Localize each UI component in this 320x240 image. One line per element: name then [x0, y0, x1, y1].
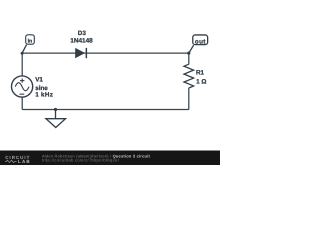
svg-text:D3: D3	[78, 30, 87, 37]
node out (junction dot, pointer and flag)	[187, 35, 207, 55]
svg-text:in: in	[28, 39, 33, 45]
voltage source V1 sine 1 kHz	[12, 76, 54, 99]
node in (junction dot, pointer and flag)	[21, 35, 35, 55]
svg-text:LAB: LAB	[18, 159, 31, 164]
wire bottom net	[22, 109, 189, 111]
svg-text:V1: V1	[35, 77, 43, 84]
svg-text:http://circuitlab.com/c/7bbpnr: http://circuitlab.com/c/7bbpnrbt6q2e/	[42, 158, 120, 163]
wire right lower (R1 bottom to bottom net)	[188, 88, 190, 110]
svg-text:1 kHz: 1 kHz	[35, 92, 53, 99]
wire left upper (in node down to V1 top)	[21, 53, 23, 76]
wire right upper (out node to R1 top)	[188, 53, 190, 64]
CircuitLab logo	[5, 155, 31, 164]
svg-text:1N4148: 1N4148	[70, 38, 93, 45]
svg-text:R1: R1	[196, 70, 205, 77]
wire top net (in to out)	[22, 52, 189, 54]
resistor R1 1 Ohm	[184, 64, 206, 88]
watermark bar	[0, 151, 220, 166]
wire left lower (V1 bottom to bottom net)	[21, 97, 23, 109]
svg-text:1 Ω: 1 Ω	[196, 78, 206, 85]
diode D3 1N4148	[70, 30, 93, 58]
svg-text:out: out	[195, 39, 206, 46]
ground	[46, 108, 66, 128]
